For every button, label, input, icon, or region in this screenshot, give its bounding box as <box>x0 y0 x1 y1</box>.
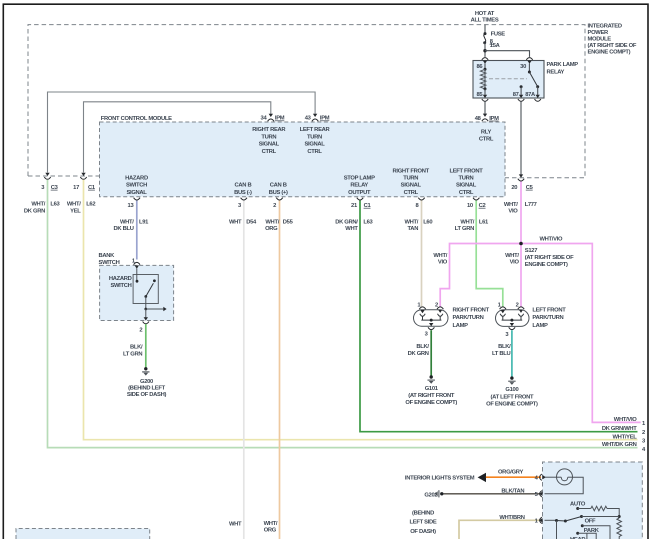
wire WHT/BRN from pin 1 down off page <box>459 520 541 539</box>
ground G202 <box>410 490 444 535</box>
filament park <box>500 314 505 317</box>
svg-text:BANK: BANK <box>99 253 116 259</box>
svg-text:VIO: VIO <box>510 260 520 266</box>
svg-text:LEFT SIDE: LEFT SIDE <box>410 520 437 526</box>
svg-text:HOT AT: HOT AT <box>475 11 495 17</box>
wire BLK/TAN from G202 to pin 5 <box>444 493 542 495</box>
relay linkage dash line <box>489 78 527 80</box>
svg-text:G101: G101 <box>425 386 439 392</box>
svg-text:SIDE OF DASH): SIDE OF DASH) <box>127 392 167 398</box>
park lamp relay box border <box>473 61 544 99</box>
interior lights system arrow <box>405 473 486 482</box>
svg-text:LT GRN: LT GRN <box>455 226 474 232</box>
connector headlamp pin 1 <box>535 517 543 524</box>
label DK GRN/WHT L63 <box>335 220 373 233</box>
wire L63 DK GRN/WHT stop lamp output <box>360 201 638 432</box>
FCM pin 2 connector (CAN B +) <box>273 198 283 209</box>
svg-text:L60: L60 <box>423 220 432 226</box>
filament turn <box>438 314 443 317</box>
svg-text:WHT/YEL: WHT/YEL <box>613 434 638 440</box>
wire WHT/VIO S127 down to left lamp pin 2 <box>520 244 522 307</box>
svg-text:(BEHIND LEFT: (BEHIND LEFT <box>128 386 165 392</box>
svg-text:WHT/: WHT/ <box>31 202 45 208</box>
svg-text:17: 17 <box>73 185 79 191</box>
svg-text:TURN: TURN <box>261 134 276 140</box>
label WHT/YEL L62 <box>67 202 95 215</box>
wire BLK/LT BLU left lamp to G100 <box>511 330 513 378</box>
svg-text:HAZARD: HAZARD <box>109 276 132 282</box>
svg-text:SWITCH: SWITCH <box>110 283 131 289</box>
FCM internal labels bottom <box>125 168 483 196</box>
relay coil <box>480 64 486 95</box>
svg-text:VIO: VIO <box>508 209 518 215</box>
wire L777 WHT/VIO from C5 to S127 <box>520 182 522 244</box>
ground G101 <box>405 375 457 406</box>
svg-text:OFF: OFF <box>585 519 596 525</box>
wire D55 WHT/ORG down off page <box>279 201 281 539</box>
connector headlamp pin 4 <box>535 474 546 481</box>
svg-text:WHT: WHT <box>229 220 242 226</box>
svg-text:PARK/TURN: PARK/TURN <box>453 315 484 321</box>
connector at relay pin 87 <box>518 95 524 102</box>
svg-text:LEFT FRONT: LEFT FRONT <box>532 307 566 313</box>
svg-text:CAN B: CAN B <box>234 183 251 189</box>
bank switch label <box>99 253 120 266</box>
wire D54 WHT down off page <box>243 201 245 539</box>
ground G200 <box>127 367 167 398</box>
hazard switch internals <box>136 269 167 318</box>
ground G100 <box>486 376 538 407</box>
svg-text:LT BLU: LT BLU <box>492 351 510 357</box>
svg-text:(AT LEFT FRONT: (AT LEFT FRONT <box>491 394 534 400</box>
wire: fuse to relay junction <box>484 43 486 57</box>
lamp return wire to pin 5 <box>545 477 584 494</box>
bank switch dashed border <box>100 265 174 320</box>
headlamp switch dashed border <box>543 462 643 539</box>
svg-text:OF ENGINE COMPT): OF ENGINE COMPT) <box>486 402 538 408</box>
svg-text:INTEGRATED: INTEGRATED <box>588 24 622 30</box>
svg-text:WHT/: WHT/ <box>433 253 447 259</box>
svg-text:PARK LAMP: PARK LAMP <box>547 62 579 68</box>
svg-text:DK GRN: DK GRN <box>408 351 429 357</box>
svg-text:MODULE: MODULE <box>588 37 612 43</box>
svg-text:(AT RIGHT FRONT: (AT RIGHT FRONT <box>408 393 455 399</box>
svg-text:G100: G100 <box>505 387 518 393</box>
filament park <box>420 314 425 317</box>
svg-text:CTRL: CTRL <box>262 149 277 155</box>
svg-text:DK BLU: DK BLU <box>113 226 133 232</box>
svg-text:RIGHT FRONT: RIGHT FRONT <box>393 168 430 174</box>
park lamp relay label <box>547 62 579 75</box>
connector lamp pin 1 <box>419 307 425 309</box>
FCM internal labels top <box>252 127 494 155</box>
connector at relay pin 85 <box>482 95 488 102</box>
svg-text:30: 30 <box>520 64 526 70</box>
svg-text:L62: L62 <box>86 202 95 208</box>
lamp common bar <box>421 319 441 321</box>
wire: relay 85 to FCM pin 48 <box>484 102 486 115</box>
wire L61 WHT/LT GRN to left lamp pin 1 <box>476 201 503 307</box>
svg-text:TURN: TURN <box>459 176 474 182</box>
svg-text:AUTO: AUTO <box>570 502 586 508</box>
wire ORG/GRY to headlamp switch pin 4 <box>486 476 541 478</box>
OFF contact <box>581 519 610 539</box>
svg-text:BLK/: BLK/ <box>498 344 511 350</box>
svg-text:DK GRN/WHT: DK GRN/WHT <box>602 426 637 432</box>
hazard switch inner box <box>133 275 158 304</box>
svg-text:WHT: WHT <box>229 522 242 528</box>
svg-text:OUTPUT: OUTPUT <box>348 190 371 196</box>
wire L62 WHT/YEL left vertical to bottom <box>84 180 638 440</box>
connector C1 pin 17 <box>73 173 96 191</box>
lamp common bar <box>502 319 523 321</box>
PARK contact <box>576 528 600 539</box>
connector 34 IPM <box>261 114 285 122</box>
FCM pin 3 connector (CAN B -) <box>238 198 247 209</box>
wire L60 WHT/TAN to right lamp pin 1 <box>421 201 423 307</box>
svg-text:15A: 15A <box>490 43 501 49</box>
wire: battery feed to fuse <box>484 25 486 33</box>
svg-text:WHT/VIO: WHT/VIO <box>614 417 637 423</box>
svg-text:SIGNAL: SIGNAL <box>456 183 477 189</box>
wire: FCM pin 43 routing to connector C3-3 <box>48 92 316 173</box>
svg-text:2: 2 <box>642 430 645 436</box>
integrated power module IPM dashed outline <box>28 25 585 178</box>
svg-text:L63: L63 <box>363 220 373 226</box>
svg-text:D54: D54 <box>246 220 257 226</box>
svg-text:ORG/GRY: ORG/GRY <box>498 469 523 475</box>
label: integrated power module <box>588 24 637 56</box>
svg-text:STOP LAMP: STOP LAMP <box>344 176 375 182</box>
wire BLK/DK GRN right lamp to G101 <box>430 330 432 377</box>
wire BLK/LT GRN to G200 <box>145 324 147 369</box>
svg-text:WHT/: WHT/ <box>120 220 134 226</box>
svg-text:SWITCH: SWITCH <box>99 260 120 266</box>
svg-text:WHT/: WHT/ <box>265 220 279 226</box>
FCM pin 21 C1 connector <box>351 198 371 209</box>
svg-text:LEFT REAR: LEFT REAR <box>300 127 331 133</box>
svg-text:PARK/TURN: PARK/TURN <box>532 315 563 321</box>
label WHT/VIO (center) <box>505 253 519 266</box>
svg-text:G200: G200 <box>140 379 153 385</box>
svg-text:ALL TIMES: ALL TIMES <box>471 17 499 23</box>
svg-text:(AT RIGHT SIDE OF: (AT RIGHT SIDE OF <box>588 43 637 49</box>
svg-text:D55: D55 <box>283 220 294 226</box>
connector lamp pin 2 <box>437 307 443 309</box>
wire WHT/VIO S127 branch left to right lamp pin 2 <box>440 244 521 307</box>
right resistor vertical <box>617 518 622 539</box>
filament turn <box>518 314 523 317</box>
svg-text:20: 20 <box>511 185 517 191</box>
svg-text:RELAY: RELAY <box>547 69 565 75</box>
svg-text:RELAY: RELAY <box>350 183 368 189</box>
svg-text:SIGNAL: SIGNAL <box>259 142 280 148</box>
svg-text:WHT/BRN: WHT/BRN <box>499 515 524 521</box>
svg-text:WHT/: WHT/ <box>504 202 518 208</box>
svg-text:WHT/: WHT/ <box>505 253 519 259</box>
svg-text:TAN: TAN <box>408 226 419 232</box>
label WHT/LT GRN L61 <box>455 220 489 233</box>
svg-text:DK GRN: DK GRN <box>24 208 45 214</box>
svg-text:2: 2 <box>435 302 438 308</box>
label WHT D54 <box>229 220 257 226</box>
connector lamp pin 1 <box>500 307 506 309</box>
node: fuse output junction <box>483 49 486 52</box>
svg-text:OF DASH): OF DASH) <box>410 529 436 535</box>
svg-text:ORG: ORG <box>265 226 278 232</box>
svg-text:WHT/DK GRN: WHT/DK GRN <box>602 442 637 448</box>
wire: relay 87 down to C5 <box>520 102 522 175</box>
FCM pin 13 connector <box>128 198 140 209</box>
svg-text:LAMP: LAMP <box>453 323 469 329</box>
svg-text:87: 87 <box>513 92 519 98</box>
node S127 <box>519 242 523 246</box>
label WHT/ORG D55 <box>265 220 294 233</box>
connector bank switch pin 2 <box>139 317 149 333</box>
connector headlamp pin 5 <box>535 491 543 498</box>
relay switch: pin 30 to 87A blade <box>528 64 539 95</box>
svg-text:2: 2 <box>273 203 276 209</box>
right front park/turn lamp <box>414 302 490 337</box>
fuse 8 15A <box>483 32 505 50</box>
label: HOT AT ALL TIMES <box>471 11 499 23</box>
svg-text:WHT/: WHT/ <box>460 220 474 226</box>
svg-text:LT GRN: LT GRN <box>123 352 142 358</box>
svg-text:INTERIOR LIGHTS SYSTEM: INTERIOR LIGHTS SYSTEM <box>405 476 475 482</box>
front control module dashed border <box>100 122 506 197</box>
svg-text:SWITCH: SWITCH <box>126 183 147 189</box>
svg-text:(BEHIND: (BEHIND <box>412 511 434 517</box>
right edge wire labels <box>602 417 646 453</box>
wire: branch to relay pin 30 <box>485 51 530 57</box>
connector 48 IPM <box>475 114 499 122</box>
connector 20 C5 <box>511 174 533 191</box>
label WHT/VIO (left branch) <box>433 253 447 266</box>
FCM pin 8 connector <box>415 198 424 209</box>
label WHT/VIO L777 <box>504 202 537 215</box>
svg-text:POWER: POWER <box>588 30 610 36</box>
svg-text:CTRL: CTRL <box>479 137 494 143</box>
svg-text:2: 2 <box>516 302 519 308</box>
connector lamp pin 2 <box>518 307 524 309</box>
svg-text:RIGHT REAR: RIGHT REAR <box>252 127 286 133</box>
svg-text:WHT/: WHT/ <box>264 521 278 527</box>
svg-text:SIGNAL: SIGNAL <box>304 142 325 148</box>
svg-text:HAZARD: HAZARD <box>125 176 148 182</box>
svg-text:2: 2 <box>139 328 142 334</box>
connector at relay pin 87A (unconnected) <box>535 95 541 102</box>
node + arrow to right <box>144 308 147 311</box>
svg-text:TURN: TURN <box>403 176 418 182</box>
svg-text:CTRL: CTRL <box>459 190 474 196</box>
svg-text:WHT: WHT <box>345 226 358 232</box>
svg-text:BLK/: BLK/ <box>416 344 429 350</box>
connector bank switch pin 1 <box>132 258 140 268</box>
svg-text:10: 10 <box>467 203 473 209</box>
svg-text:BLK/TAN: BLK/TAN <box>501 488 524 494</box>
label WHT/TAN L60 <box>404 220 432 233</box>
svg-text:BUS (+): BUS (+) <box>269 190 288 196</box>
FCM pin 10 C2 connector <box>467 198 486 209</box>
headlamp switch common and blade <box>545 515 620 539</box>
svg-text:LEFT FRONT: LEFT FRONT <box>449 168 483 174</box>
svg-text:S127: S127 <box>525 248 537 254</box>
label WHT/DK BLU L91 <box>113 220 149 233</box>
svg-text:CAN B: CAN B <box>270 183 287 189</box>
svg-text:L777: L777 <box>525 202 537 208</box>
svg-text:RLY: RLY <box>481 129 492 135</box>
left front park/turn lamp <box>496 302 567 337</box>
svg-text:DK GRN/: DK GRN/ <box>335 220 358 226</box>
svg-text:L91: L91 <box>139 220 149 226</box>
wire L91 WHT/DK BLU pin13 to bank switch <box>136 201 138 260</box>
wire WHT/VIO S127 branch right and down to page edge <box>521 244 641 423</box>
relay pin labels <box>476 64 536 98</box>
svg-text:ORG: ORG <box>264 527 277 533</box>
svg-text:FUSE: FUSE <box>491 32 506 38</box>
svg-text:TURN: TURN <box>307 134 322 140</box>
svg-text:L63: L63 <box>50 202 60 208</box>
svg-text:ENGINE COMPT): ENGINE COMPT) <box>588 50 631 56</box>
svg-text:VIO: VIO <box>438 260 448 266</box>
svg-text:FRONT CONTROL MODULE: FRONT CONTROL MODULE <box>101 116 172 122</box>
connector 43 IPM <box>305 114 330 122</box>
svg-text:WHT/: WHT/ <box>404 220 418 226</box>
interior lamp bulb <box>545 469 584 494</box>
wire: FCM pin 34 routing to connector C1-17 <box>84 102 271 173</box>
svg-text:WHT/VIO: WHT/VIO <box>540 236 563 242</box>
svg-text:ENGINE COMPT): ENGINE COMPT) <box>525 262 568 268</box>
svg-text:SIGNAL: SIGNAL <box>401 183 422 189</box>
connector at relay pin 86 <box>482 58 488 64</box>
svg-text:87A: 87A <box>525 92 536 98</box>
svg-text:LAMP: LAMP <box>532 323 548 329</box>
svg-text:L61: L61 <box>479 220 489 226</box>
svg-text:RIGHT FRONT: RIGHT FRONT <box>453 307 490 313</box>
svg-text:CTRL: CTRL <box>404 190 419 196</box>
svg-text:SIGNAL: SIGNAL <box>126 190 147 196</box>
AUTO contact and resistor <box>570 502 621 518</box>
bottom labels for CAN bus wires <box>229 521 278 533</box>
svg-text:BUS (-): BUS (-) <box>234 190 252 196</box>
svg-text:(AT RIGHT SIDE OF: (AT RIGHT SIDE OF <box>525 255 574 261</box>
svg-text:CTRL: CTRL <box>307 149 322 155</box>
connector at relay pin 30 <box>526 58 532 64</box>
svg-text:YEL: YEL <box>70 208 81 214</box>
bottom-left module dashed border <box>16 529 150 539</box>
connector C3 pin 3 <box>41 173 58 191</box>
svg-text:WHT/: WHT/ <box>67 202 81 208</box>
label S127 location <box>525 248 574 268</box>
label WHT/DK GRN L63 <box>24 202 61 215</box>
svg-text:OF ENGINE COMPT): OF ENGINE COMPT) <box>405 400 457 406</box>
svg-text:BLK/: BLK/ <box>130 345 143 351</box>
wire L63 WHT/DK GRN left vertical to bottom <box>48 180 638 448</box>
relay contact pin 87 <box>520 85 523 95</box>
